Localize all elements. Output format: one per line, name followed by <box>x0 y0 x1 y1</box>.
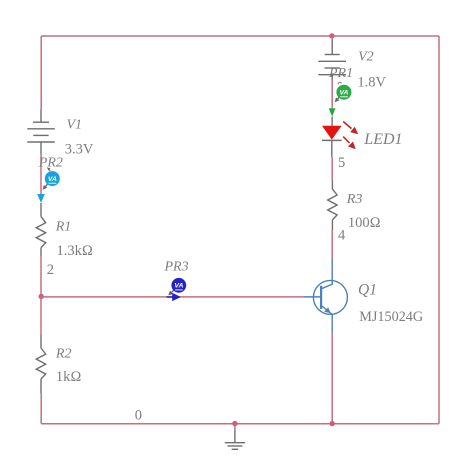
probe PR1 pin tip <box>338 82 342 84</box>
probe PR1 tail <box>338 98 339 99</box>
pin stub R2 bottom <box>40 417 42 423</box>
resistor R3 <box>328 181 337 231</box>
wire left top (V1+ lead up) <box>40 36 42 109</box>
probe PR3 circle <box>171 278 186 293</box>
probe PR2 circle <box>45 171 60 186</box>
junction node 2 <box>39 294 44 299</box>
svg-text:V1: V1 <box>67 118 83 133</box>
svg-text:1kΩ: 1kΩ <box>56 369 82 385</box>
svg-text:LED1: LED1 <box>363 131 402 148</box>
wire node 2 to R2 <box>40 297 42 335</box>
LED LED1 <box>331 117 333 126</box>
Q1 emitter arrow <box>324 307 331 313</box>
wire right side <box>438 36 440 424</box>
svg-text:PR2: PR2 <box>38 156 63 171</box>
svg-text:MJ15024G: MJ15024G <box>359 309 423 325</box>
svg-text:100Ω: 100Ω <box>348 215 381 231</box>
svg-text:4: 4 <box>338 228 346 244</box>
wire base (node 2 to Q1 base) <box>41 296 303 298</box>
junction ground <box>232 421 237 426</box>
ground <box>225 430 245 450</box>
svg-text:R3: R3 <box>346 192 363 207</box>
wire V1- to R1 <box>40 155 42 194</box>
svg-text:1.8V: 1.8V <box>357 74 386 90</box>
wire bottom (node 0) <box>41 423 439 425</box>
svg-text:VA: VA <box>48 176 57 183</box>
wire V2 top stub <box>331 36 333 40</box>
wire LED1 to R3 (node 5) <box>331 157 333 181</box>
pin stub bottom-right corner <box>431 423 438 425</box>
wire Q1 emitter to bottom <box>331 334 333 424</box>
svg-text:VA: VA <box>174 283 183 290</box>
svg-text:2: 2 <box>47 262 54 278</box>
wire R1 to node 2 junction <box>40 256 42 296</box>
resistor R2 <box>36 334 45 393</box>
wire ground stub <box>234 424 236 430</box>
probe PR1 circle <box>336 85 351 100</box>
wire V2- to LED1 <box>331 80 333 109</box>
junction V2 top <box>329 33 334 38</box>
pin stub top-left corner <box>43 35 47 37</box>
battery V2 <box>318 40 346 80</box>
svg-text:Q1: Q1 <box>358 282 377 299</box>
probe PR2 pin tip <box>47 167 50 170</box>
probe PR2 current arrow <box>37 194 45 203</box>
svg-text:R1: R1 <box>55 220 72 235</box>
wire R3 to Q1 collector (node 4) <box>331 231 333 259</box>
svg-text:5: 5 <box>338 155 345 171</box>
probe PR3 tail <box>172 290 174 292</box>
svg-text:V2: V2 <box>358 50 374 65</box>
probe PR1 current arrow <box>329 108 336 116</box>
svg-text:3.3V: 3.3V <box>65 142 94 158</box>
wire R2 to bottom <box>40 394 42 424</box>
LED1 light arrow lower <box>343 137 349 143</box>
svg-text:PR3: PR3 <box>164 260 189 275</box>
probe PR2 tail <box>46 184 48 186</box>
junction emitter-bottom <box>330 421 335 426</box>
LED1 light arrow upper <box>343 122 351 129</box>
battery V1 <box>27 109 55 155</box>
svg-text:R2: R2 <box>55 347 72 362</box>
svg-text:0: 0 <box>135 408 142 424</box>
wire top (node V1+ to V2+) <box>41 35 439 37</box>
svg-text:VA: VA <box>340 90 349 97</box>
svg-text:1.3kΩ: 1.3kΩ <box>57 243 94 259</box>
probe PR3 current arrow <box>166 296 172 298</box>
transistor Q1 <box>303 259 347 334</box>
resistor R1 <box>36 203 45 256</box>
